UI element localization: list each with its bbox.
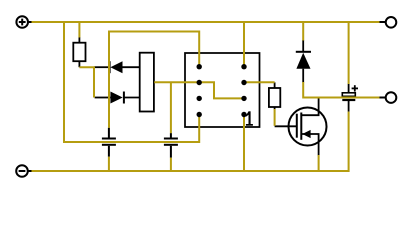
- MOSFET Q1: [275, 98, 327, 156]
- wire R1 top: [78, 22, 80, 38]
- wire MOSFET source to rail: [318, 155, 320, 171]
- wire bottom rail: [31, 112, 349, 171]
- wire left drop to bottom link: [64, 22, 199, 142]
- terminal out (top right): [380, 17, 397, 28]
- terminal out (middle right): [380, 92, 397, 103]
- diode D3 (opto LED, anode left): [95, 92, 140, 104]
- terminal - (bottom left): [16, 165, 31, 177]
- wire C3 top: [348, 22, 350, 84]
- relay / switch block S1: [185, 53, 260, 127]
- terminal + (top left): [16, 16, 31, 28]
- wire C1 bottom: [108, 157, 110, 171]
- wire relay to gate resistor R2: [244, 81, 275, 83]
- wire top rail: [31, 21, 381, 23]
- wire relay pin top right: [243, 22, 245, 67]
- wire tap to C2: [170, 82, 172, 133]
- wire gate: [274, 109, 276, 126]
- diode D2 (opto LED, cathode left): [94, 61, 140, 73]
- wire drain net to output: [303, 82, 380, 98]
- opto-coupler body U1: [140, 53, 154, 112]
- label 1: [246, 111, 253, 125]
- capacitor C1: [102, 128, 116, 157]
- wire R1 bottom to LED pair: [79, 67, 94, 97]
- capacitor C3 (electrolytic, polarized): [342, 84, 358, 112]
- resistor R2 (gate): [269, 82, 280, 109]
- wire C2 bottom: [170, 158, 172, 171]
- wire second rail to cap C1: [109, 32, 199, 128]
- wire diode D1 top: [302, 22, 304, 41]
- diode D1 (flyback, cathode up): [296, 40, 311, 83]
- wire opto output to relay: [154, 82, 244, 98]
- resistor R1: [73, 37, 85, 67]
- wire relay pin 4 right to bottom rail: [243, 115, 245, 171]
- relay pin dots: [197, 64, 247, 117]
- plus sign of C3: [352, 87, 358, 89]
- capacitor C2: [164, 133, 178, 158]
